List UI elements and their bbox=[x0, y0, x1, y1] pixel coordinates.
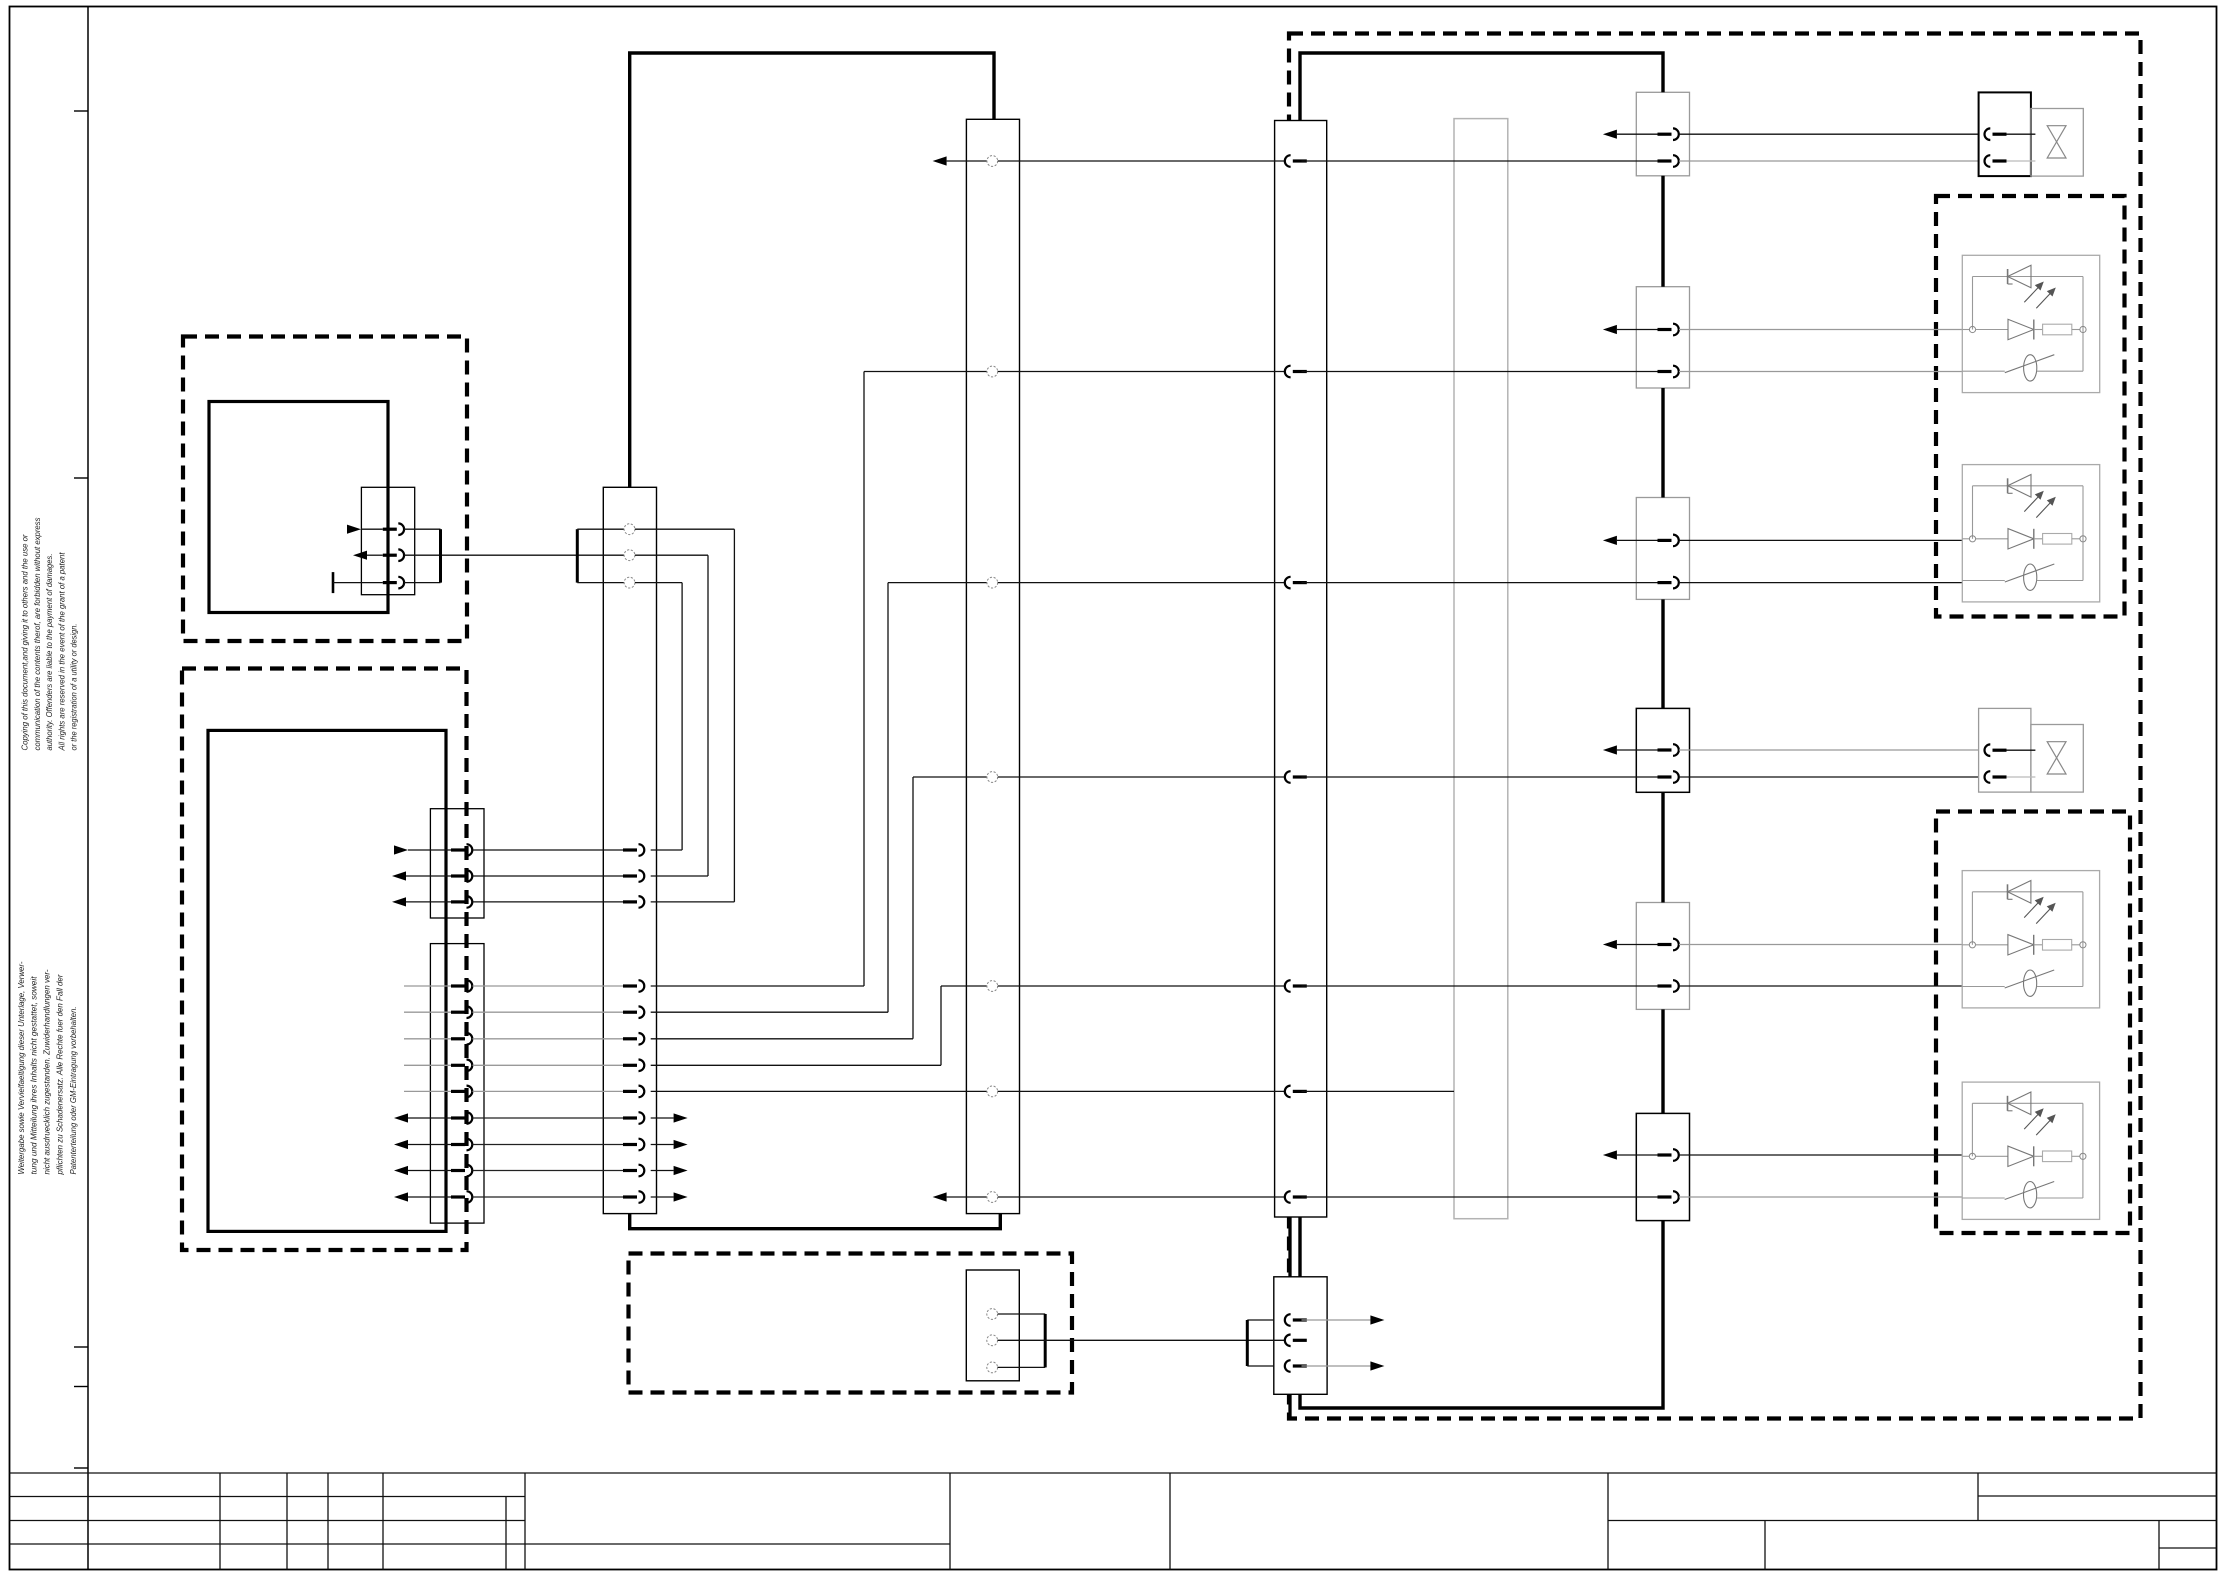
svg-text:Patenterteilung oder GM-Eintra: Patenterteilung oder GM-Eintragung vorbe… bbox=[69, 1007, 78, 1175]
wire X7a to M1 bbox=[1679, 134, 1991, 161]
motor M1 bbox=[1979, 92, 2084, 176]
wire X7f to E2b bbox=[1679, 1155, 1962, 1197]
svg-text:nicht ausdruecklich zugestande: nicht ausdruecklich zugestanden. Zuwider… bbox=[43, 969, 52, 1174]
splice node S3 bbox=[603, 577, 635, 588]
connector X7e bbox=[1636, 903, 1689, 1010]
splice X2 row2 bbox=[864, 366, 1285, 377]
socket X7d pins bbox=[1603, 744, 1679, 783]
splice X2 row3 bbox=[888, 577, 1285, 588]
wire bus X7 chain (thick) bbox=[1661, 176, 1664, 1114]
connector strip X1 bbox=[603, 487, 656, 1213]
wire X1 to X2 ground (thick) bbox=[630, 1214, 1001, 1229]
pin A1.2 wire bbox=[353, 549, 624, 561]
connector X7a bbox=[1636, 92, 1689, 176]
pin A1.1 wire bbox=[347, 523, 441, 535]
jumper A1 pins 1-3 bbox=[439, 529, 442, 582]
lamp module E2a bbox=[1962, 871, 2099, 1008]
splice X2 row6 bbox=[987, 1086, 1285, 1097]
wire X7f to X6 (thick) bbox=[1300, 1221, 1663, 1408]
socket X1.5 bbox=[623, 874, 637, 877]
wire X3 to X7 rows bbox=[1302, 161, 1658, 1197]
connector X7d bbox=[1636, 708, 1689, 792]
svg-text:or the registration of a utili: or the registration of a utility or desi… bbox=[70, 624, 79, 751]
lamp module E1a bbox=[1962, 255, 2099, 392]
splice X5 pins bbox=[987, 1309, 998, 1373]
wire X5.2 to X6.2 bbox=[998, 1339, 1285, 1341]
wire S2 loop to X1.2 bbox=[635, 555, 708, 876]
title block bbox=[10, 1473, 2217, 1570]
connector A1-X bbox=[361, 487, 414, 594]
legal notice german bbox=[17, 961, 78, 1175]
pin A1.3 wire bbox=[333, 572, 441, 593]
pin A2.12 wire bbox=[394, 1191, 688, 1203]
socket X7a pins bbox=[1603, 128, 1679, 166]
jumper X6 1-3 bbox=[1247, 1320, 1274, 1366]
socket X6 pins bbox=[1285, 1314, 1307, 1372]
lamp cluster E2 dashed outline bbox=[1936, 812, 2130, 1234]
fold marks bbox=[74, 111, 88, 1468]
pin A2.7 wire bbox=[404, 986, 941, 1071]
pin A2.5 wire bbox=[404, 583, 888, 1018]
pin A2.11 wire bbox=[394, 1165, 688, 1177]
svg-text:communication of the contents: communication of the contents therof, ar… bbox=[33, 517, 42, 750]
pin A2.1 wire bbox=[394, 844, 623, 856]
connector strip X2 bbox=[966, 119, 1019, 1213]
wire supply to X7a (thick) bbox=[1300, 53, 1663, 121]
splice X2 row4 bbox=[913, 772, 1285, 783]
connector X7f bbox=[1636, 1113, 1689, 1220]
svg-text:authority. Offenders are liabl: authority. Offenders are liable to the p… bbox=[45, 554, 54, 751]
svg-text:pflichten zu Schadenersatz. Al: pflichten zu Schadenersatz. Alle Rechte … bbox=[55, 974, 64, 1175]
wire X3 to X6 shield (dashed) bbox=[1288, 1217, 1291, 1419]
socket X1.4 bbox=[623, 848, 637, 851]
pin A2.10 wire bbox=[394, 1139, 688, 1151]
pin A2.9 wire bbox=[394, 1112, 688, 1124]
connector X5 bottom-left bbox=[966, 1270, 1019, 1381]
component K1 dashed outline bbox=[183, 337, 467, 642]
wire battery+ to X2 (thick) bbox=[630, 53, 994, 487]
socket X7b pins bbox=[1603, 324, 1679, 378]
wire X6.1 out bbox=[1302, 1315, 1385, 1324]
splice X2 row1 bbox=[933, 156, 1285, 167]
jumper X5 1-3 bbox=[998, 1314, 1046, 1367]
control unit A2 bbox=[208, 730, 446, 1231]
wire X3 to X6 (thick) bbox=[1298, 1217, 1301, 1277]
svg-text:Weitergabe sowie Vervielfaelti: Weitergabe sowie Vervielfaeltigung diese… bbox=[17, 961, 26, 1174]
socket X1.6 bbox=[623, 900, 637, 903]
component K2 dashed outline bbox=[182, 669, 467, 1251]
wire S1 loop to X1.3 bbox=[635, 529, 735, 902]
socket X7c pins bbox=[1603, 535, 1679, 589]
wire X7e to E2a bbox=[1679, 945, 1962, 987]
pin A2.6 wire bbox=[404, 777, 913, 1045]
connector A2-X2 bbox=[430, 944, 484, 1224]
wire X7b to E1a bbox=[1679, 330, 1962, 372]
splice node S2 bbox=[624, 550, 635, 561]
connector strip X4 (gray) bbox=[1454, 119, 1508, 1219]
splice node S1 bbox=[603, 524, 635, 535]
connector shell X1 top bbox=[577, 529, 603, 582]
svg-text:All rights are reserved in the: All rights are reserved in the event of … bbox=[57, 552, 66, 752]
legal notice english bbox=[21, 517, 79, 751]
lamp cluster E1 dashed outline bbox=[1936, 196, 2125, 617]
connector strip X3 bbox=[1275, 121, 1327, 1218]
pin A2.8 wire bbox=[404, 1086, 987, 1098]
pin A2.4 wire bbox=[404, 372, 864, 992]
splice X2 row5 bbox=[941, 981, 1285, 992]
lamp module E1b bbox=[1962, 465, 2099, 602]
wire S3 loop to X1.1 bbox=[635, 583, 682, 850]
connector A2-X1 bbox=[430, 809, 484, 918]
pin A2.2 wire bbox=[392, 870, 623, 882]
motor M2 bbox=[1979, 708, 2084, 792]
socket X7e pins bbox=[1603, 939, 1679, 992]
connector X7c bbox=[1636, 498, 1689, 600]
socket X3 rows bbox=[1285, 155, 1307, 1203]
wire X7c to E1b bbox=[1679, 540, 1962, 582]
wire X6.3 out bbox=[1302, 1361, 1385, 1370]
control unit A1 bbox=[209, 402, 388, 613]
component K3 dashed outline bbox=[629, 1254, 1073, 1393]
connector X6 bottom-right bbox=[1274, 1277, 1327, 1395]
svg-text:tung und Mitteilung ihres Inha: tung und Mitteilung ihres Inhalts nicht … bbox=[30, 976, 39, 1175]
svg-text:Copying of this document,and g: Copying of this document,and giving it t… bbox=[21, 534, 30, 750]
pin A2.3 wire bbox=[392, 896, 623, 908]
wire X7d to M2 bbox=[1679, 750, 1991, 777]
lamp module E2b bbox=[1962, 1082, 2099, 1219]
splice X2 row7 bbox=[933, 1192, 1285, 1203]
connector X7b bbox=[1636, 287, 1689, 388]
component E-box dashed outline bbox=[1289, 34, 2141, 1419]
socket X7f pins bbox=[1603, 1149, 1679, 1203]
